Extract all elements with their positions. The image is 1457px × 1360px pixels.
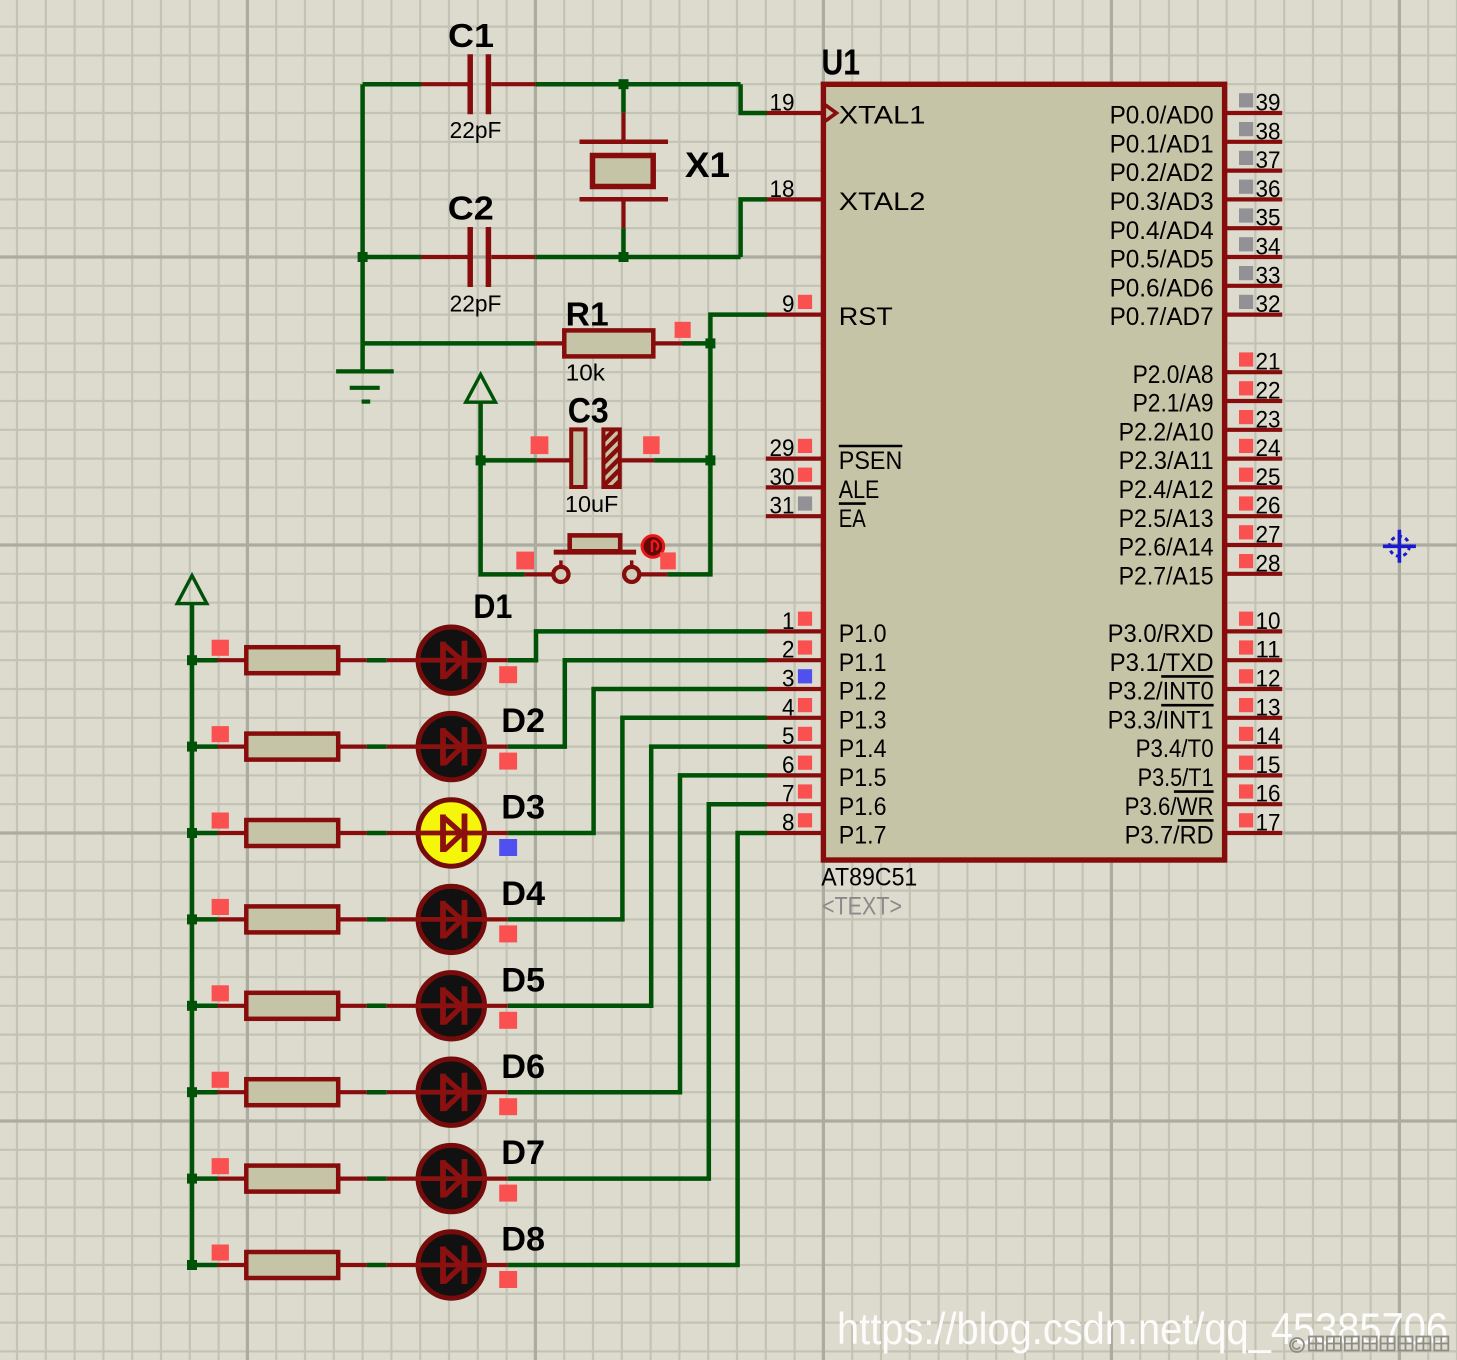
svg-text:22: 22	[1256, 378, 1281, 405]
svg-text:P2.2/A10: P2.2/A10	[1119, 418, 1214, 446]
svg-text:P1.5: P1.5	[839, 764, 887, 792]
svg-text:33: 33	[1256, 262, 1281, 289]
svg-text:P0.3/AD3: P0.3/AD3	[1110, 188, 1214, 216]
svg-text:12: 12	[1256, 666, 1281, 693]
svg-text:P0.7/AD7: P0.7/AD7	[1110, 303, 1214, 331]
svg-text:D3: D3	[501, 789, 545, 827]
svg-text:P1.4: P1.4	[839, 735, 887, 763]
svg-text:D8: D8	[501, 1221, 545, 1259]
svg-text:P1.7: P1.7	[839, 822, 887, 850]
svg-text:P2.4/A12: P2.4/A12	[1119, 476, 1214, 504]
svg-text:P3.4/T0: P3.4/T0	[1136, 735, 1214, 763]
svg-text:P0.1/AD1: P0.1/AD1	[1110, 130, 1214, 158]
svg-text:P3.3/INT1: P3.3/INT1	[1108, 706, 1214, 734]
svg-text:https://blog.csdn.net/qq_45385: https://blog.csdn.net/qq_45385706	[837, 1305, 1448, 1354]
svg-text:10: 10	[1256, 608, 1281, 635]
svg-text:P3.6/WR: P3.6/WR	[1125, 793, 1214, 821]
svg-text:P2.7/A15: P2.7/A15	[1119, 562, 1214, 590]
svg-text:14: 14	[1256, 723, 1281, 750]
svg-text:P2.0/A8: P2.0/A8	[1133, 361, 1214, 389]
svg-text:19: 19	[770, 90, 795, 117]
svg-text:38: 38	[1256, 118, 1281, 145]
svg-text:28: 28	[1256, 550, 1281, 577]
svg-text:26: 26	[1256, 493, 1281, 520]
svg-text:R1: R1	[566, 295, 609, 332]
svg-text:P3.0/RXD: P3.0/RXD	[1108, 620, 1214, 648]
svg-text:P2.1/A9: P2.1/A9	[1133, 390, 1214, 418]
svg-text:P1.2: P1.2	[839, 678, 887, 706]
svg-text:30: 30	[770, 464, 795, 491]
svg-text:ALE: ALE	[839, 476, 880, 504]
svg-text:D2: D2	[501, 702, 545, 740]
svg-text:25: 25	[1256, 464, 1281, 491]
svg-text:P3.7/RD: P3.7/RD	[1125, 822, 1214, 850]
svg-text:2: 2	[782, 637, 795, 664]
svg-text:EA: EA	[839, 505, 866, 533]
svg-text:35: 35	[1256, 205, 1281, 232]
svg-text:6: 6	[782, 752, 795, 779]
svg-text:18: 18	[770, 176, 795, 203]
svg-text:P2.5/A13: P2.5/A13	[1119, 505, 1214, 533]
svg-text:10uF: 10uF	[565, 491, 619, 517]
svg-text:P3.2/INT0: P3.2/INT0	[1108, 678, 1214, 706]
svg-text:27: 27	[1256, 522, 1281, 549]
svg-text:P0.0/AD0: P0.0/AD0	[1110, 102, 1214, 130]
svg-text:XTAL1: XTAL1	[839, 102, 926, 130]
svg-text:7: 7	[782, 781, 795, 808]
svg-text:RST: RST	[839, 303, 893, 331]
svg-text:36: 36	[1256, 176, 1281, 203]
svg-text:PSEN: PSEN	[839, 447, 903, 475]
svg-text:P1.6: P1.6	[839, 793, 887, 821]
svg-text:P1.0: P1.0	[839, 620, 887, 648]
svg-text:34: 34	[1256, 234, 1281, 261]
svg-text:D1: D1	[473, 588, 512, 626]
svg-text:C3: C3	[568, 392, 609, 431]
svg-text:P0.5/AD5: P0.5/AD5	[1110, 246, 1214, 274]
svg-text:21: 21	[1256, 349, 1281, 376]
svg-text:22pF: 22pF	[450, 117, 502, 143]
svg-text:8: 8	[782, 810, 795, 837]
svg-text:9: 9	[782, 291, 795, 318]
svg-text:AT89C51: AT89C51	[821, 863, 917, 891]
svg-text:P1.3: P1.3	[839, 706, 887, 734]
svg-text:P0.6/AD6: P0.6/AD6	[1110, 274, 1214, 302]
svg-text:4: 4	[782, 694, 795, 721]
svg-text:D6: D6	[501, 1048, 545, 1086]
svg-text:P0.4/AD4: P0.4/AD4	[1110, 217, 1214, 245]
svg-text:U1: U1	[822, 42, 861, 83]
svg-text:P0.2/AD2: P0.2/AD2	[1110, 159, 1214, 187]
svg-text:5: 5	[782, 723, 795, 750]
svg-text:C2: C2	[448, 190, 494, 227]
svg-text:16: 16	[1256, 781, 1281, 808]
svg-text:39: 39	[1256, 90, 1281, 117]
svg-text:P3.1/TXD: P3.1/TXD	[1110, 649, 1214, 677]
svg-text:3: 3	[782, 666, 795, 693]
svg-text:P2.3/A11: P2.3/A11	[1119, 447, 1214, 475]
svg-text:17: 17	[1256, 810, 1281, 837]
svg-text:P2.6/A14: P2.6/A14	[1119, 534, 1214, 562]
svg-text:D7: D7	[501, 1134, 545, 1172]
svg-text:13: 13	[1256, 694, 1281, 721]
svg-text:37: 37	[1256, 147, 1281, 174]
svg-text:P1.1: P1.1	[839, 649, 887, 677]
svg-text:1: 1	[782, 608, 795, 635]
svg-text:10k: 10k	[566, 360, 606, 386]
svg-text:23: 23	[1256, 406, 1281, 433]
svg-text:D4: D4	[501, 875, 545, 913]
svg-text:XTAL2: XTAL2	[839, 188, 926, 216]
svg-text:32: 32	[1256, 291, 1281, 318]
svg-text:P3.5/T1: P3.5/T1	[1138, 764, 1214, 792]
svg-text:C1: C1	[448, 17, 494, 54]
svg-text:11: 11	[1256, 637, 1281, 664]
svg-text:24: 24	[1256, 435, 1281, 462]
svg-text:D5: D5	[501, 961, 545, 999]
svg-text:29: 29	[770, 435, 795, 462]
svg-text:15: 15	[1256, 752, 1281, 779]
svg-text:<TEXT>: <TEXT>	[822, 893, 902, 921]
svg-text:31: 31	[770, 493, 795, 520]
svg-text:X1: X1	[685, 146, 730, 185]
svg-text:22pF: 22pF	[450, 291, 502, 317]
